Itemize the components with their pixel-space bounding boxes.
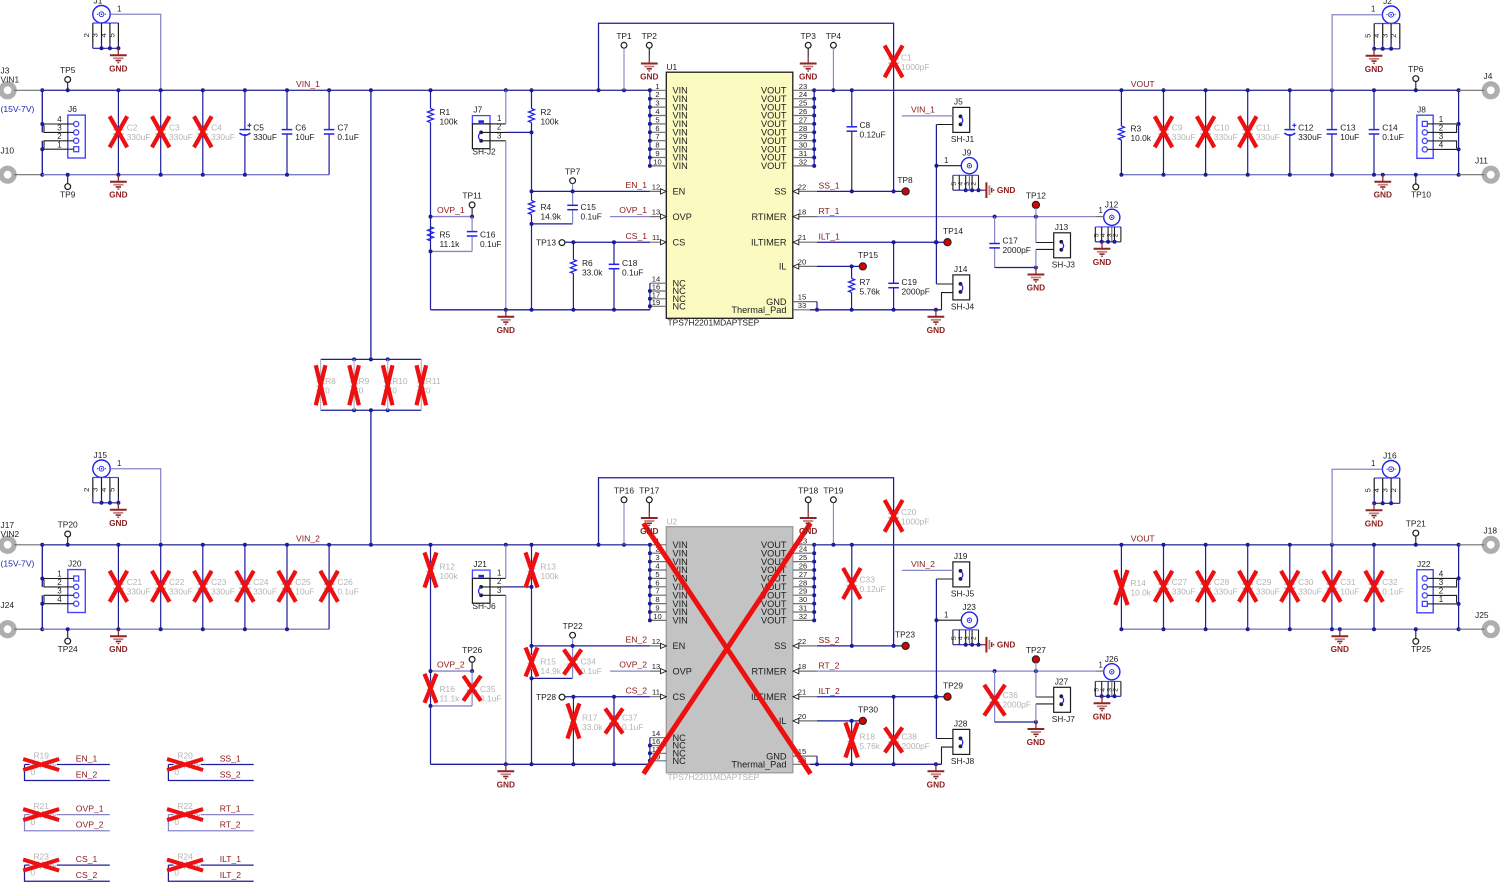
svg-text:U2: U2: [667, 517, 678, 527]
svg-text:RT_1: RT_1: [819, 206, 840, 216]
wire input left vertical: [40, 88, 44, 176]
test point TP2: [642, 31, 658, 57]
wire IL node: [817, 264, 860, 268]
svg-text:C15: C15: [581, 202, 597, 212]
test point TP27: [1026, 645, 1046, 671]
svg-text:CS_2: CS_2: [626, 685, 648, 695]
svg-text:CS_1: CS_1: [76, 854, 98, 864]
wire net EN_1: [532, 180, 650, 191]
svg-text:330uF: 330uF: [1214, 587, 1238, 597]
svg-text:2: 2: [1389, 488, 1398, 492]
test point TP22: [563, 621, 583, 648]
svg-text:OVP_1: OVP_1: [619, 205, 647, 215]
wire net RT_2: [817, 660, 1096, 673]
svg-text:1: 1: [117, 459, 121, 468]
svg-text:10.0k: 10.0k: [1131, 133, 1152, 143]
svg-text:100k: 100k: [541, 117, 560, 127]
ground RT jumper: [1027, 722, 1045, 747]
svg-text:R22: R22: [177, 801, 193, 811]
svg-text:J20: J20: [68, 559, 82, 569]
svg-text:330uF: 330uF: [169, 132, 193, 142]
svg-text:C35: C35: [480, 684, 496, 694]
resistor R2: [529, 90, 560, 191]
test point TP13: [536, 231, 650, 248]
svg-text:C14: C14: [1382, 123, 1398, 133]
wire VIN jumper vertical: [934, 579, 938, 739]
svg-text:R4: R4: [541, 202, 552, 212]
svg-text:EN: EN: [673, 187, 686, 197]
svg-text:TP6: TP6: [1408, 64, 1424, 74]
svg-text:2000pF: 2000pF: [902, 741, 930, 751]
svg-text:330uF: 330uF: [253, 587, 277, 597]
svg-text:C1: C1: [901, 53, 912, 63]
wire bank feed from VIN_1: [370, 90, 372, 359]
capacitor C33: [843, 545, 886, 646]
svg-text:TP20: TP20: [58, 520, 78, 530]
svg-text:Thermal_Pad: Thermal_Pad: [731, 760, 786, 770]
svg-text:R9: R9: [359, 376, 370, 386]
svg-text:C12: C12: [1298, 123, 1314, 133]
svg-text:C8: C8: [860, 120, 871, 130]
svg-text:TPS7H2201MDAPTSEP: TPS7H2201MDAPTSEP: [668, 772, 760, 782]
wire J1 pin1 to rail: [110, 5, 160, 91]
capacitor C22: [152, 545, 193, 629]
wire net SS_2: [817, 635, 902, 648]
svg-text:GND: GND: [1027, 283, 1045, 293]
svg-text:1: 1: [944, 156, 948, 165]
label net OVP_1 at divider: [437, 205, 465, 215]
test point TP15: [858, 250, 878, 270]
svg-text:R6: R6: [582, 258, 593, 268]
svg-text:TP23: TP23: [895, 630, 915, 640]
wire output right vertical: [1458, 545, 1460, 629]
jumper J27: [1036, 671, 1075, 724]
IC U2 regulator: [648, 517, 817, 783]
svg-text:1: 1: [57, 140, 62, 149]
capacitor C8: [847, 90, 886, 191]
svg-text:2: 2: [497, 577, 501, 586]
svg-text:SH-J8: SH-J8: [951, 756, 975, 766]
svg-text:EN_2: EN_2: [626, 635, 648, 645]
wire left ground bus: [431, 308, 650, 312]
svg-text:ILT_2: ILT_2: [819, 686, 841, 696]
svg-text:J13: J13: [1055, 222, 1069, 232]
svg-text:C32: C32: [1382, 577, 1398, 587]
svg-text:J10: J10: [1, 146, 15, 156]
label net VOUT: [1131, 534, 1156, 544]
svg-text:TP4: TP4: [826, 31, 842, 41]
svg-text:GND: GND: [1365, 518, 1383, 528]
svg-text:C2: C2: [127, 123, 138, 133]
svg-text:TP25: TP25: [1411, 644, 1431, 654]
wire net ILT_2: [817, 686, 944, 699]
wire EN node bottom: [530, 644, 573, 764]
svg-text:10.0k: 10.0k: [1131, 588, 1152, 598]
svg-text:RTIMER: RTIMER: [751, 666, 786, 676]
svg-text:C34: C34: [581, 657, 597, 667]
svg-text:1000pF: 1000pF: [901, 62, 929, 72]
connector J22 output header: [1417, 559, 1461, 613]
svg-text:TP27: TP27: [1026, 645, 1046, 655]
wire input left vertical: [40, 543, 44, 631]
capacitor C11: [1239, 90, 1280, 174]
svg-text:C33: C33: [860, 575, 876, 585]
resistor R19 net tie: [23, 751, 110, 781]
svg-text:OVP_1: OVP_1: [437, 205, 465, 215]
test point TP19: [823, 485, 843, 545]
svg-text:10uF: 10uF: [1340, 587, 1359, 597]
svg-text:GND: GND: [997, 640, 1015, 650]
svg-text:CS_2: CS_2: [76, 870, 98, 880]
wire input ground bus: [42, 627, 329, 631]
svg-text:C21: C21: [127, 577, 143, 587]
svg-text:5: 5: [108, 33, 117, 37]
svg-text:NC: NC: [673, 302, 687, 312]
wire OVP node: [429, 669, 473, 764]
svg-text:VIN: VIN: [673, 161, 688, 171]
capacitor C18: [609, 240, 644, 310]
svg-text:GND: GND: [109, 190, 127, 200]
wire output ground bus: [1119, 173, 1460, 177]
svg-text:TP11: TP11: [462, 191, 482, 201]
svg-text:Thermal_Pad: Thermal_Pad: [731, 305, 786, 315]
resistor R15: [526, 646, 562, 679]
svg-text:C17: C17: [1003, 236, 1019, 246]
svg-text:1000pF: 1000pF: [901, 517, 929, 527]
svg-text:2: 2: [497, 123, 501, 132]
jumper J19: [902, 551, 975, 599]
capacitor C20: [885, 500, 930, 646]
ground right bus: [927, 764, 945, 789]
svg-text:0.1uF: 0.1uF: [480, 239, 501, 249]
svg-text:J25: J25: [1475, 610, 1489, 620]
svg-text:SH-J7: SH-J7: [1052, 714, 1076, 724]
svg-text:11: 11: [652, 688, 660, 697]
capacitor C36: [984, 671, 1038, 724]
svg-text:330uF: 330uF: [1256, 132, 1280, 142]
svg-text:330uF: 330uF: [1298, 132, 1322, 142]
svg-text:J14: J14: [954, 264, 968, 274]
svg-text:GND: GND: [640, 72, 658, 82]
svg-text:GND: GND: [997, 185, 1015, 195]
capacitor C26: [320, 545, 359, 629]
resistor R8: [316, 359, 336, 410]
svg-text:100k: 100k: [440, 117, 459, 127]
svg-text:1: 1: [1371, 459, 1375, 468]
ground under J15: [109, 503, 127, 528]
connector J12 scope jack: [1093, 199, 1121, 266]
test point TP5: [60, 65, 76, 90]
svg-text:330uF: 330uF: [169, 587, 193, 597]
svg-text:GND: GND: [1374, 190, 1392, 200]
test point TP10: [1411, 175, 1431, 200]
svg-text:J5: J5: [954, 96, 963, 106]
connector J24 return terminal: [1, 600, 43, 636]
svg-text:TP19: TP19: [823, 485, 843, 495]
capacitor C35: [463, 671, 501, 706]
svg-text:100k: 100k: [440, 571, 459, 581]
svg-text:0.1uF: 0.1uF: [337, 132, 358, 142]
svg-text:R17: R17: [582, 713, 598, 723]
resistor R4: [529, 191, 562, 224]
svg-text:J4: J4: [1484, 71, 1493, 81]
test point TP26: [462, 645, 482, 673]
svg-text:R13: R13: [541, 562, 557, 572]
wire EN node bottom: [530, 189, 573, 309]
svg-text:5.76k: 5.76k: [860, 741, 881, 751]
capacitor C24: [236, 545, 277, 629]
capacitor C25: [278, 545, 314, 629]
svg-text:NC: NC: [673, 756, 687, 766]
svg-text:GND: GND: [799, 72, 817, 82]
svg-text:C38: C38: [902, 732, 918, 742]
svg-text:SS: SS: [774, 187, 786, 197]
svg-text:J27: J27: [1055, 676, 1069, 686]
wire net RT_1: [817, 206, 1096, 219]
svg-text:C22: C22: [169, 577, 185, 587]
svg-text:3: 3: [497, 131, 501, 140]
capacitor C4: [194, 90, 235, 174]
svg-text:100k: 100k: [541, 571, 560, 581]
svg-text:C20: C20: [901, 507, 917, 517]
svg-text:11: 11: [652, 233, 660, 242]
svg-text:(15V-7V): (15V-7V): [1, 104, 35, 114]
resistor R9: [349, 359, 369, 410]
svg-text:5.76k: 5.76k: [860, 287, 881, 297]
svg-text:J19: J19: [954, 551, 968, 561]
jumper J14: [936, 264, 974, 312]
svg-text:GND: GND: [1093, 257, 1111, 267]
wire C1 feedback loop: [599, 478, 894, 545]
svg-text:C11: C11: [1256, 123, 1271, 133]
resistor R18: [845, 721, 880, 764]
svg-text:SS_2: SS_2: [220, 769, 241, 779]
svg-text:14.9k: 14.9k: [541, 212, 562, 222]
svg-text:TP15: TP15: [858, 250, 878, 260]
svg-text:R21: R21: [34, 801, 50, 811]
resistor R1: [428, 90, 459, 216]
svg-text:OVP_1: OVP_1: [76, 803, 104, 813]
capacitor C37: [605, 695, 643, 765]
svg-text:SH-J4: SH-J4: [951, 301, 975, 311]
svg-text:SH-J5: SH-J5: [951, 588, 975, 598]
svg-text:R1: R1: [440, 107, 451, 117]
jumper J7: [472, 90, 533, 309]
svg-text:C5: C5: [253, 123, 264, 133]
svg-text:SS: SS: [774, 641, 786, 651]
ground left bus: [497, 310, 515, 335]
svg-text:RT_2: RT_2: [220, 820, 241, 830]
svg-text:0.1uF: 0.1uF: [1382, 132, 1403, 142]
svg-text:OVP: OVP: [673, 212, 692, 222]
label net VIN_1 at J5: [911, 105, 935, 115]
svg-text:2: 2: [1113, 233, 1120, 237]
svg-text:0.1uF: 0.1uF: [480, 694, 501, 704]
svg-text:CS: CS: [673, 237, 686, 247]
test point TP30: [858, 705, 878, 725]
svg-text:330uF: 330uF: [1256, 587, 1280, 597]
ground under TP3: [799, 57, 817, 82]
svg-text:J23: J23: [962, 602, 976, 612]
svg-text:TP26: TP26: [462, 645, 482, 655]
connector J8 output header: [1417, 105, 1461, 159]
resistor R14: [1115, 545, 1152, 629]
jumper J5: [902, 96, 975, 143]
svg-text:0.1uF: 0.1uF: [581, 666, 602, 676]
wire bank buses: [321, 357, 422, 412]
connector J25 output return: [1459, 610, 1498, 636]
svg-text:0.1uF: 0.1uF: [337, 587, 358, 597]
svg-text:R16: R16: [440, 684, 456, 694]
capacitor C12: [1284, 90, 1322, 174]
svg-text:OVP_2: OVP_2: [437, 660, 465, 670]
svg-text:3: 3: [1380, 488, 1389, 492]
capacitor C6: [282, 90, 315, 174]
svg-text:EN_1: EN_1: [76, 753, 98, 763]
svg-text:R10: R10: [392, 376, 408, 386]
svg-text:C18: C18: [622, 258, 638, 268]
connector J10 return terminal: [1, 146, 43, 182]
svg-text:GND: GND: [497, 325, 515, 335]
svg-text:C30: C30: [1298, 577, 1314, 587]
DNP cross over U2: [644, 523, 811, 773]
svg-text:1: 1: [117, 5, 121, 14]
svg-text:EN_1: EN_1: [626, 180, 648, 190]
test point TP11: [462, 191, 482, 219]
svg-text:TP28: TP28: [536, 692, 556, 702]
test point TP9: [60, 175, 76, 200]
test point TP4: [826, 31, 842, 91]
svg-text:330uF: 330uF: [127, 132, 151, 142]
label input voltage range: [1, 104, 35, 114]
svg-text:C28: C28: [1214, 577, 1230, 587]
svg-text:1: 1: [1099, 206, 1103, 215]
svg-text:330uF: 330uF: [127, 587, 151, 597]
svg-text:C36: C36: [1003, 690, 1019, 700]
svg-text:GND: GND: [640, 526, 658, 536]
test point TP14: [943, 226, 963, 246]
svg-text:RTIMER: RTIMER: [751, 212, 786, 222]
svg-text:J1: J1: [94, 0, 103, 6]
capacitor C32: [1365, 545, 1404, 629]
svg-text:C37: C37: [622, 713, 638, 723]
svg-text:0: 0: [325, 386, 330, 396]
svg-text:2: 2: [1113, 688, 1120, 692]
svg-text:J26: J26: [1105, 654, 1119, 664]
capacitor C9: [1155, 90, 1196, 174]
svg-text:2000pF: 2000pF: [1003, 245, 1031, 255]
ground under J1: [109, 48, 127, 73]
resistor R13: [526, 545, 560, 646]
svg-text:R8: R8: [325, 376, 336, 386]
svg-text:ILT_1: ILT_1: [220, 854, 242, 864]
svg-text:TPS7H2201MDAPTSEP: TPS7H2201MDAPTSEP: [668, 318, 760, 328]
svg-text:CS: CS: [673, 692, 686, 702]
capacitor C29: [1239, 545, 1280, 629]
svg-text:J8: J8: [1417, 105, 1426, 115]
svg-text:J15: J15: [94, 450, 108, 460]
connector J6 input header: [40, 104, 85, 158]
svg-text:TP17: TP17: [639, 485, 659, 495]
svg-text:J21: J21: [473, 559, 487, 569]
wire C1 feedback loop: [599, 23, 894, 90]
wire OVP node: [429, 215, 473, 310]
svg-text:TP9: TP9: [60, 190, 76, 200]
svg-text:TP30: TP30: [858, 705, 878, 715]
svg-text:R2: R2: [541, 107, 552, 117]
wire left ground bus: [431, 762, 650, 766]
test point TP3: [801, 31, 817, 57]
wire VIN_2 rail: [42, 543, 650, 547]
svg-text:(15V-7V): (15V-7V): [1, 559, 35, 569]
svg-text:VIN_1: VIN_1: [296, 79, 320, 89]
label input voltage range: [1, 559, 35, 569]
capacitor C30: [1281, 545, 1322, 629]
svg-text:GND: GND: [799, 526, 817, 536]
svg-text:2000pF: 2000pF: [902, 287, 930, 297]
test point TP6: [1408, 64, 1424, 90]
test point TP16: [614, 485, 634, 545]
wire output right vertical: [1458, 90, 1460, 174]
svg-text:2: 2: [1389, 34, 1398, 38]
IC U1 regulator: [648, 62, 817, 328]
svg-text:0.1uF: 0.1uF: [1382, 587, 1403, 597]
svg-text:C9: C9: [1172, 123, 1183, 133]
svg-text:J11: J11: [1475, 156, 1488, 166]
connector J17 input terminal: [1, 520, 43, 551]
capacitor C16: [467, 217, 502, 252]
ground input bus: [109, 175, 127, 200]
svg-text:CS_1: CS_1: [626, 231, 648, 241]
svg-text:GND: GND: [927, 779, 945, 789]
connector J2 coax jack: [1363, 0, 1399, 51]
svg-text:R24: R24: [177, 851, 193, 861]
label net VOUT: [1131, 79, 1156, 89]
svg-text:IL: IL: [779, 262, 787, 272]
svg-text:GND: GND: [109, 63, 127, 73]
capacitor C17: [989, 217, 1038, 270]
svg-text:RT_1: RT_1: [220, 803, 241, 813]
svg-text:C26: C26: [337, 577, 353, 587]
connector J15 coax jack: [82, 450, 120, 505]
svg-text:2: 2: [970, 182, 977, 186]
connector J11 output return: [1459, 156, 1498, 182]
svg-text:GND: GND: [927, 325, 945, 335]
svg-text:32: 32: [799, 612, 807, 621]
capacitor C34: [564, 646, 602, 679]
svg-text:J24: J24: [1, 600, 15, 610]
svg-text:0: 0: [359, 386, 364, 396]
jumper J28: [936, 718, 974, 766]
svg-text:C13: C13: [1340, 123, 1356, 133]
svg-text:2000pF: 2000pF: [1003, 700, 1031, 710]
svg-text:2: 2: [970, 636, 977, 640]
svg-text:R15: R15: [541, 657, 557, 667]
svg-text:10: 10: [653, 612, 661, 621]
ground RT jumper: [1027, 268, 1045, 293]
svg-text:R3: R3: [1131, 124, 1142, 134]
resistor R24 net tie: [167, 851, 254, 881]
wire right ground bus: [810, 762, 942, 766]
svg-text:11.1k: 11.1k: [440, 239, 461, 249]
svg-text:3: 3: [1380, 34, 1389, 38]
wire J2 pin1 to rail: [1332, 5, 1382, 91]
capacitor C3: [152, 90, 193, 174]
svg-text:TP3: TP3: [801, 31, 817, 41]
svg-text:11.1k: 11.1k: [440, 694, 461, 704]
label net OVP_2 at divider: [437, 660, 465, 670]
svg-text:J22: J22: [1417, 559, 1431, 569]
